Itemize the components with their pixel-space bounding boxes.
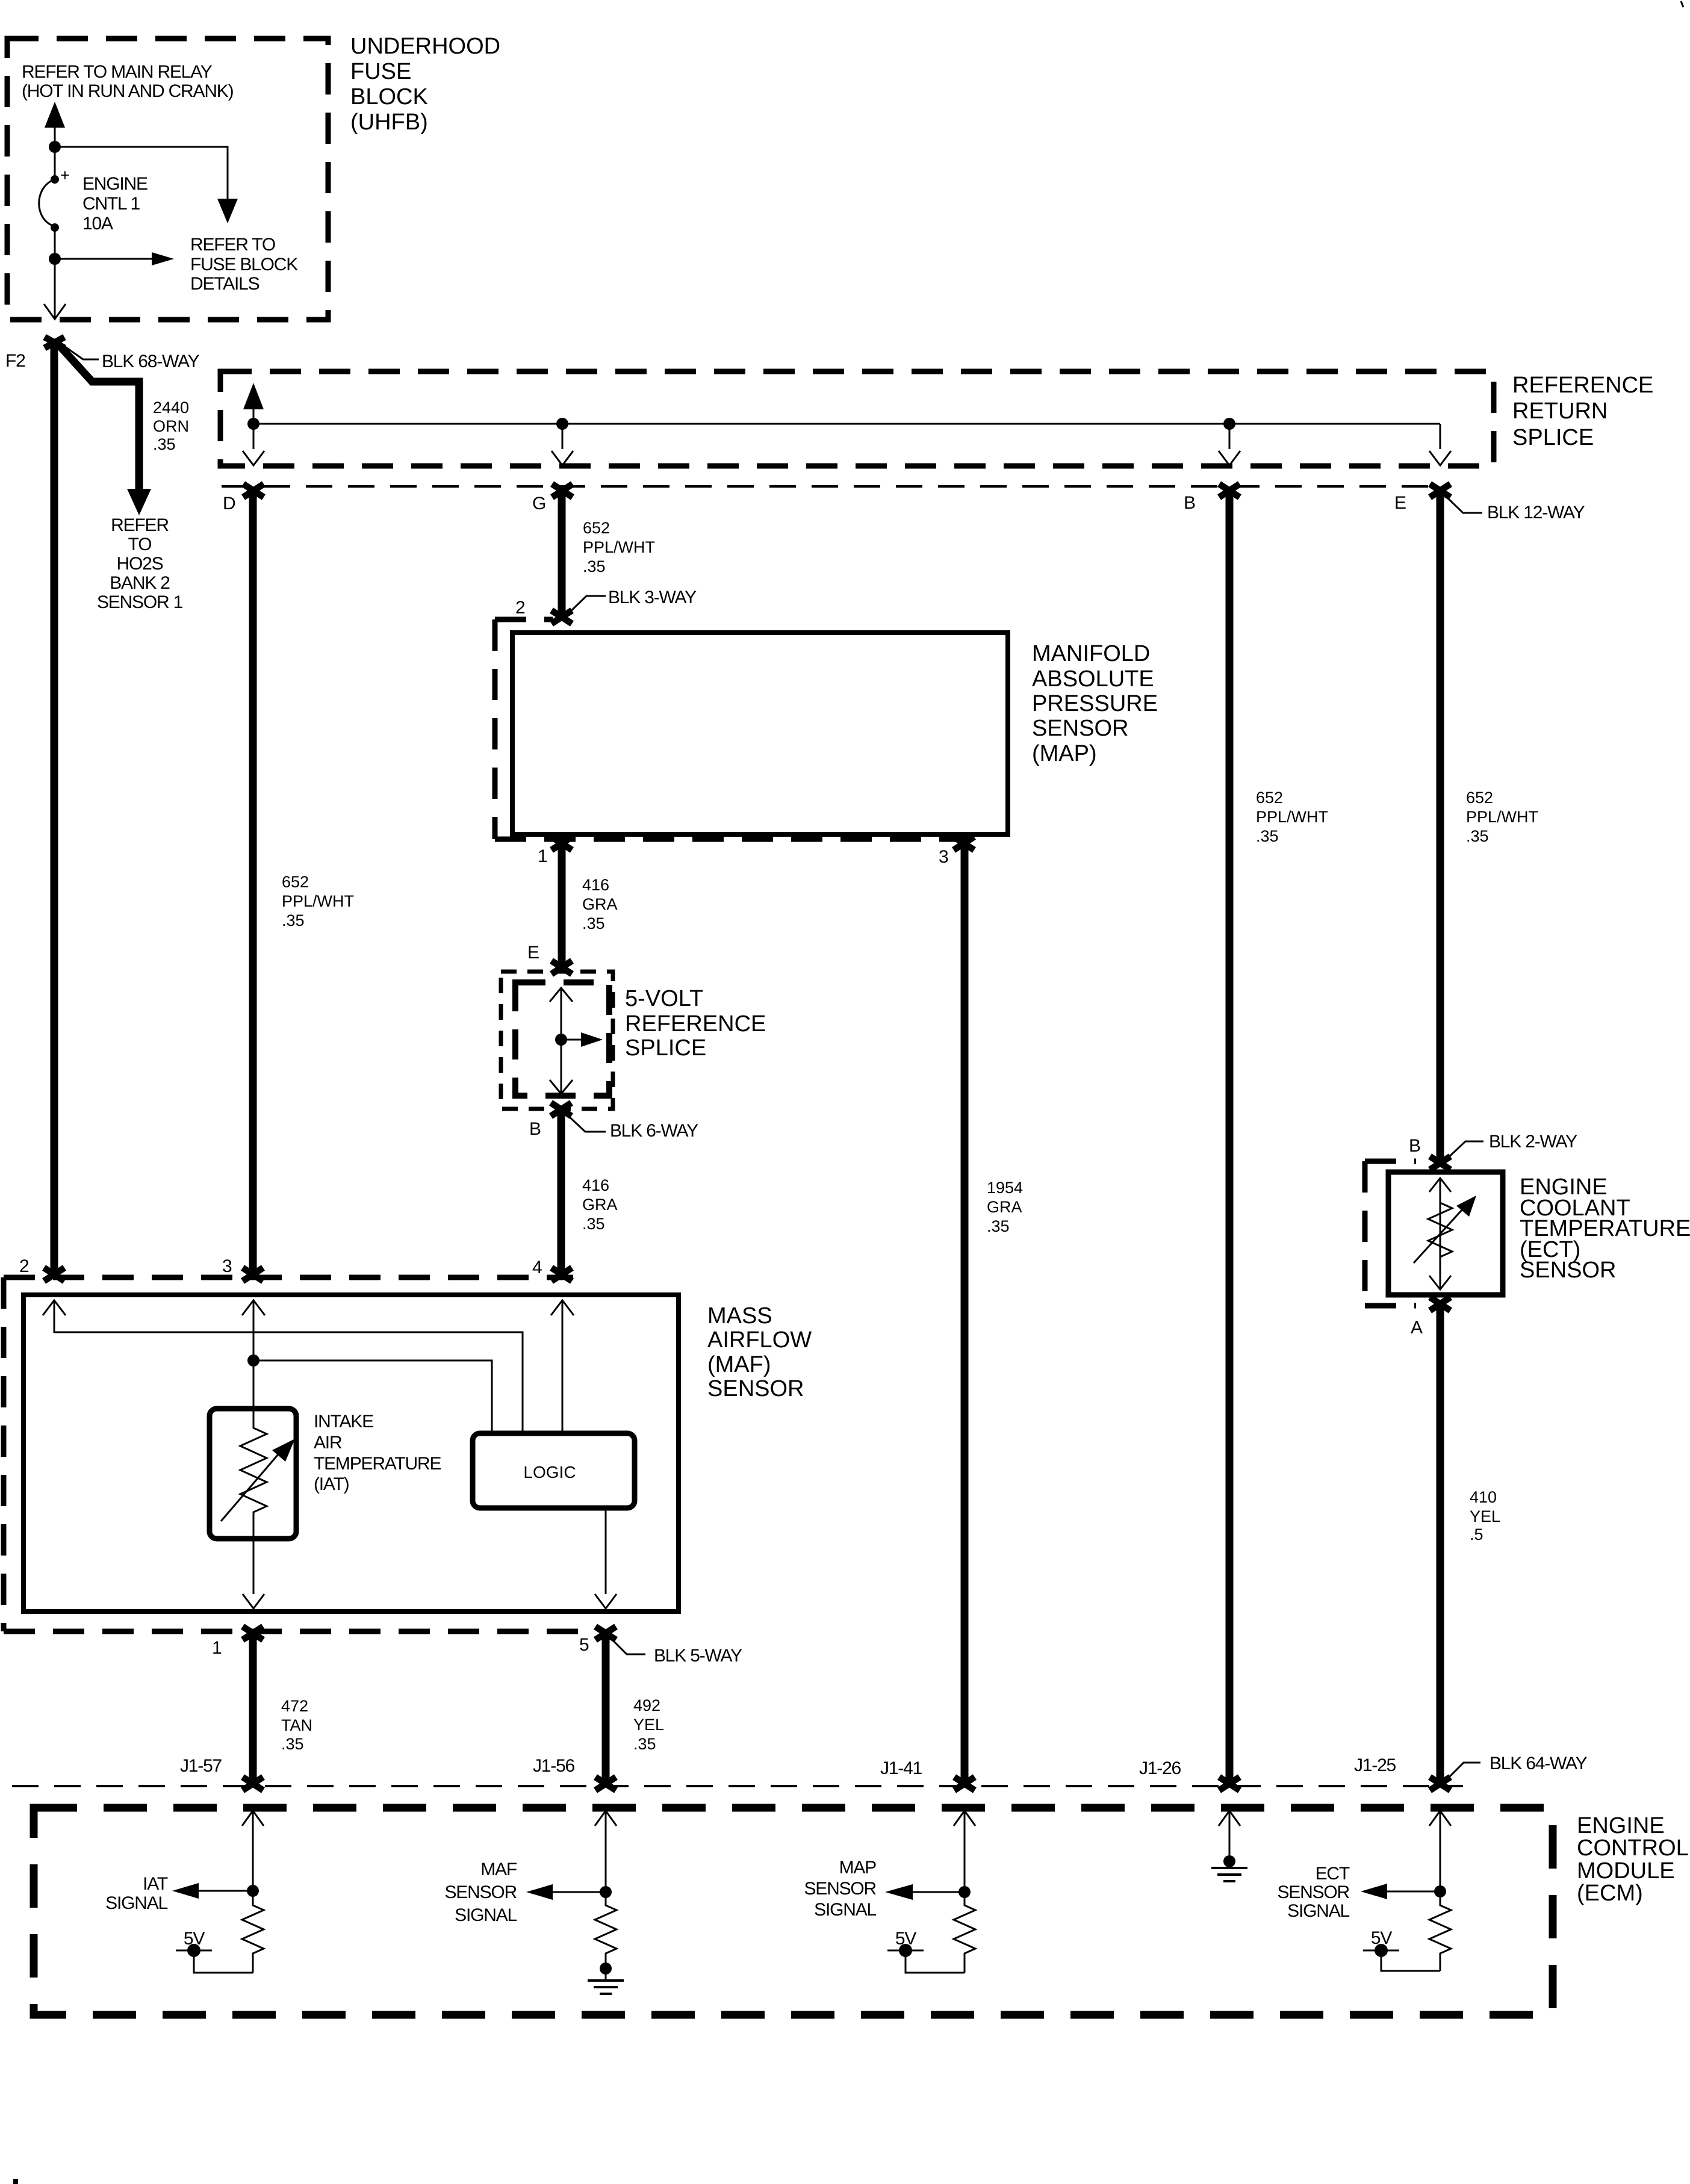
- svg-text:(MAP): (MAP): [1032, 741, 1097, 766]
- label MAF SENSOR SIGNAL: [445, 1860, 517, 1925]
- connector mark J1-41: [954, 1777, 975, 1790]
- wire 1954 GRA MAP pin 3 to ECM J1-41: [961, 844, 969, 1783]
- splice node with arrows: [550, 988, 603, 1094]
- svg-text:1: 1: [538, 846, 547, 866]
- svg-text:MAF: MAF: [480, 1860, 517, 1879]
- wire down to F2 with open arrow: [44, 259, 66, 319]
- svg-text:5: 5: [579, 1635, 589, 1655]
- svg-text:2440: 2440: [153, 399, 189, 417]
- connector mark MAF pin 4: [551, 1268, 572, 1281]
- connector mark MAF pin 3: [243, 1268, 263, 1281]
- svg-text:416: 416: [582, 876, 609, 894]
- page corner mark top right: [1681, 1, 1683, 7]
- MAF SENSOR SIGNAL arrow: [526, 1884, 606, 1900]
- connector mark J1-25: [1430, 1777, 1450, 1790]
- svg-text:LOGIC: LOGIC: [523, 1463, 576, 1481]
- label 492 YEL .35: [633, 1696, 664, 1753]
- svg-text:3: 3: [222, 1256, 232, 1276]
- splice feed arrow up: [243, 383, 264, 465]
- svg-text:4: 4: [532, 1258, 542, 1277]
- connector mark at E: [1430, 484, 1450, 497]
- svg-text:BLK 68-WAY: BLK 68-WAY: [102, 352, 200, 371]
- wire LOGIC to MAF pin 5: [595, 1508, 617, 1609]
- svg-text:(ECM): (ECM): [1577, 1881, 1643, 1906]
- svg-text:5V: 5V: [1371, 1928, 1392, 1948]
- label MANIFOLD ABSOLUTE PRESSURE SENSOR (MAP): [1032, 641, 1158, 766]
- svg-text:TAN: TAN: [281, 1716, 312, 1734]
- svg-text:SIGNAL: SIGNAL: [1287, 1901, 1349, 1921]
- svg-text:1954: 1954: [987, 1179, 1023, 1197]
- ECM pull-up resistor (ECT): [1429, 1891, 1451, 1971]
- svg-text:.35: .35: [282, 911, 305, 929]
- svg-text:REFER TO MAIN RELAY: REFER TO MAIN RELAY: [22, 62, 213, 82]
- svg-text:BLK 5-WAY: BLK 5-WAY: [654, 1646, 742, 1666]
- svg-text:GRA: GRA: [582, 895, 618, 913]
- svg-text:AIRFLOW: AIRFLOW: [707, 1327, 812, 1353]
- svg-text:.35: .35: [1466, 827, 1489, 845]
- svg-text:J1-25: J1-25: [1354, 1755, 1396, 1775]
- IAT thermistor box: [210, 1409, 296, 1539]
- page corner mark bottom left: [13, 2179, 18, 2184]
- svg-text:CONTROL: CONTROL: [1577, 1835, 1689, 1861]
- ECM dashed box: [34, 1808, 1553, 2015]
- connector mark X at F2 BLK 68-WAY: [45, 337, 64, 348]
- connector mark ECT pin A: [1430, 1297, 1450, 1311]
- junction node: [247, 418, 259, 430]
- connector line BLK 12-WAY: [222, 485, 1449, 488]
- arrow wire to fuse block details: [55, 228, 174, 265]
- wire branch to fuse block details: [55, 147, 228, 202]
- ECM ECT signal input wire: [1429, 1811, 1451, 1891]
- svg-text:E: E: [527, 943, 539, 963]
- svg-text:PPL/WHT: PPL/WHT: [1256, 808, 1328, 826]
- svg-text:GRA: GRA: [582, 1196, 618, 1214]
- svg-text:BLK 2-WAY: BLK 2-WAY: [1489, 1132, 1577, 1152]
- junction node: [555, 1034, 567, 1046]
- svg-text:SPLICE: SPLICE: [625, 1035, 706, 1061]
- connector mark splice top: [551, 961, 572, 974]
- svg-text:.35: .35: [633, 1735, 656, 1753]
- svg-text:5-VOLT: 5-VOLT: [625, 986, 703, 1011]
- 5V reference terminal (MAP): [887, 1929, 965, 1973]
- label ECT SENSOR SIGNAL: [1278, 1864, 1350, 1921]
- svg-text:J1-41: J1-41: [880, 1758, 922, 1778]
- MAP sensor solid box: [512, 633, 1008, 834]
- svg-text:HO2S: HO2S: [117, 554, 163, 574]
- connector mark ECT pin B: [1430, 1156, 1450, 1170]
- connector mark MAP pin 3: [954, 837, 974, 850]
- svg-text:B: B: [1409, 1136, 1420, 1156]
- wire 410 YEL ECT pin A to ECM J1-25: [1437, 1308, 1444, 1783]
- svg-text:PPL/WHT: PPL/WHT: [1466, 808, 1538, 826]
- svg-text:.35: .35: [1256, 827, 1279, 845]
- wire junction to logic: [253, 1360, 492, 1432]
- label 2440 ORN .35: [153, 399, 189, 453]
- svg-text:BLK 3-WAY: BLK 3-WAY: [608, 588, 697, 607]
- label UNDERHOOD FUSE BLOCK (UHFB): [350, 34, 500, 135]
- svg-text:492: 492: [633, 1696, 660, 1714]
- svg-text:B: B: [1184, 493, 1195, 513]
- svg-text:AIR: AIR: [314, 1433, 342, 1453]
- junction node: [1223, 1855, 1235, 1867]
- svg-text:SIGNAL: SIGNAL: [455, 1905, 517, 1925]
- svg-text:B: B: [529, 1119, 541, 1139]
- svg-text:RETURN: RETURN: [1512, 399, 1608, 424]
- junction node: [958, 1886, 971, 1898]
- wire 492 YEL MAF pin 5 to ECM J1-56: [602, 1636, 610, 1783]
- svg-text:SENSOR: SENSOR: [1032, 716, 1128, 741]
- svg-text:.35: .35: [582, 914, 605, 932]
- connector mark J1-26: [1219, 1777, 1240, 1790]
- svg-text:SIGNAL: SIGNAL: [105, 1893, 167, 1913]
- note REFER TO MAIN RELAY (HOT IN RUN AND CRANK): [22, 62, 234, 101]
- svg-text:2: 2: [19, 1256, 29, 1276]
- ground (MAF): [588, 1968, 624, 1994]
- label ENGINE CONTROL MODULE (ECM): [1577, 1813, 1689, 1906]
- connector mark splice bottom BLK 6-WAY: [551, 1103, 571, 1116]
- junction node: [247, 1885, 259, 1897]
- ECT sensor dashed connector box: [1365, 1161, 1416, 1306]
- LOGIC box: [473, 1433, 635, 1508]
- 5V reference terminal (ECT): [1363, 1928, 1440, 1971]
- label 416 GRA .35 (lower): [582, 1176, 618, 1233]
- ECM ground leg J1-26: [1219, 1811, 1240, 1861]
- label 652 PPL/WHT .35 (E wire): [1466, 789, 1538, 845]
- svg-text:SENSOR: SENSOR: [445, 1882, 517, 1902]
- label 652 PPL/WHT .35 (G wire): [583, 519, 655, 575]
- svg-text:+: +: [60, 166, 70, 184]
- connector mark J1-56: [595, 1777, 616, 1790]
- svg-text:1: 1: [212, 1638, 222, 1658]
- svg-text:652: 652: [282, 873, 309, 891]
- svg-text:INTAKE: INTAKE: [314, 1412, 373, 1432]
- callout BLK 5-WAY: [610, 1637, 742, 1666]
- svg-text:(MAF): (MAF): [707, 1352, 771, 1377]
- MAF sensor dashed connector box: [4, 1277, 596, 1631]
- ECT thermistor element: [1414, 1178, 1476, 1289]
- svg-text:REFERENCE: REFERENCE: [1512, 373, 1653, 398]
- svg-text:E: E: [1394, 493, 1406, 513]
- label MASS AIRFLOW (MAF) SENSOR: [707, 1303, 812, 1401]
- svg-text:5V: 5V: [895, 1929, 916, 1949]
- svg-text:BLK 12-WAY: BLK 12-WAY: [1487, 503, 1585, 523]
- wire 2440 ORN left run to MAF pin 2: [51, 346, 58, 1273]
- svg-text:ORN: ORN: [153, 417, 189, 435]
- svg-text:GRA: GRA: [987, 1198, 1022, 1216]
- svg-text:SIGNAL: SIGNAL: [814, 1900, 876, 1920]
- svg-text:ABSOLUTE: ABSOLUTE: [1032, 666, 1154, 692]
- splice drop arrow at E: [1429, 424, 1451, 465]
- ECT SENSOR SIGNAL arrow: [1361, 1884, 1440, 1899]
- svg-text:FUSE BLOCK: FUSE BLOCK: [190, 255, 298, 275]
- label 5-VOLT REFERENCE SPLICE: [625, 986, 766, 1061]
- callout BLK 12-WAY: [1444, 495, 1585, 523]
- svg-text:MASS: MASS: [707, 1303, 772, 1329]
- svg-text:5V: 5V: [184, 1929, 205, 1949]
- svg-text:G: G: [532, 494, 545, 513]
- junction node: [556, 418, 568, 430]
- svg-text:MANIFOLD: MANIFOLD: [1032, 641, 1150, 666]
- svg-text:3: 3: [939, 847, 948, 867]
- reference return splice dashed box: [220, 371, 1494, 466]
- ECT sensor solid box: [1388, 1172, 1503, 1295]
- svg-text:UNDERHOOD: UNDERHOOD: [350, 34, 500, 59]
- splice drop arrow at B: [1219, 424, 1240, 465]
- connector mark MAF pin 2: [44, 1268, 64, 1281]
- label 416 GRA .35 (upper): [582, 876, 618, 932]
- fuse ENGINE CNTL 1 10A: [39, 147, 148, 234]
- svg-text:410: 410: [1470, 1488, 1497, 1506]
- down arrow to fuse block details note: [217, 199, 238, 223]
- label INTAKE AIR TEMPERATURE (IAT): [314, 1412, 441, 1494]
- svg-text:J1-56: J1-56: [533, 1756, 575, 1776]
- svg-text:SENSOR: SENSOR: [1278, 1882, 1350, 1902]
- svg-text:REFER TO: REFER TO: [190, 235, 275, 255]
- svg-text:BLK 6-WAY: BLK 6-WAY: [610, 1121, 698, 1141]
- svg-text:.35: .35: [281, 1735, 304, 1753]
- MAF internal wire from pin 3: [242, 1300, 265, 1412]
- connector mark J1-57: [243, 1777, 263, 1790]
- label 1954 GRA .35: [987, 1179, 1023, 1235]
- label ENGINE COOLANT TEMPERATURE (ECT) SENSOR: [1520, 1174, 1690, 1283]
- svg-text:MODULE: MODULE: [1577, 1858, 1675, 1884]
- svg-text:F2: F2: [5, 351, 25, 371]
- label MAP SENSOR SIGNAL: [804, 1858, 877, 1920]
- connector mark MAF pin 1: [243, 1627, 263, 1640]
- label REFERENCE RETURN SPLICE: [1512, 373, 1653, 450]
- junction node: [49, 253, 61, 265]
- svg-text:IAT: IAT: [143, 1874, 168, 1894]
- svg-text:(HOT IN RUN AND CRANK): (HOT IN RUN AND CRANK): [22, 81, 234, 101]
- svg-text:J1-26: J1-26: [1139, 1758, 1181, 1778]
- svg-text:REFERENCE: REFERENCE: [625, 1011, 766, 1037]
- svg-text:DETAILS: DETAILS: [190, 274, 259, 294]
- wire 416 GRA splice B to MAF pin 4: [558, 1112, 565, 1273]
- label 410 YEL .5: [1470, 1488, 1500, 1543]
- splice bus wire: [253, 423, 1440, 425]
- svg-text:.5: .5: [1470, 1525, 1483, 1543]
- wire IAT to MAF pin 1: [243, 1539, 264, 1609]
- junction node: [247, 1354, 259, 1367]
- svg-text:BANK 2: BANK 2: [110, 573, 170, 593]
- svg-text:.35: .35: [987, 1217, 1010, 1235]
- svg-text:YEL: YEL: [633, 1716, 664, 1734]
- svg-text:.35: .35: [583, 557, 606, 575]
- svg-text:SENSOR: SENSOR: [1520, 1258, 1616, 1283]
- splice drop arrow at G: [551, 424, 573, 465]
- wire 472 TAN MAF pin 1 to ECM J1-57: [249, 1636, 257, 1783]
- ECM pull-up resistor (IAT): [242, 1891, 264, 1973]
- svg-text:(UHFB): (UHFB): [350, 110, 428, 135]
- IAT SIGNAL arrow: [172, 1883, 253, 1899]
- wire 416 GRA MAP pin 1 to splice E: [558, 844, 566, 968]
- note REFER TO HO2S BANK 2 SENSOR 1: [97, 515, 183, 612]
- svg-text:A: A: [1411, 1318, 1423, 1338]
- MAP sensor dashed connector box: [495, 619, 976, 839]
- svg-text:FUSE: FUSE: [350, 59, 411, 84]
- svg-text:D: D: [223, 494, 235, 513]
- svg-text:(IAT): (IAT): [314, 1474, 349, 1494]
- svg-text:MAP: MAP: [839, 1858, 877, 1878]
- junction node: [49, 141, 61, 153]
- svg-text:TO: TO: [128, 535, 152, 554]
- connector line BLK 64-WAY: [12, 1785, 1463, 1787]
- label IAT SIGNAL: [105, 1874, 168, 1913]
- ECM pull-down resistor (MAF): [595, 1892, 617, 1965]
- note REFER TO FUSE BLOCK DETAILS: [190, 235, 298, 294]
- callout BLK 3-WAY: [567, 588, 697, 615]
- svg-text:2: 2: [515, 598, 525, 618]
- underhood fuse block (UHFB) dashed box: [7, 39, 328, 320]
- callout BLK 6-WAY: [566, 1114, 698, 1141]
- svg-text:652: 652: [1256, 789, 1283, 807]
- connector mark MAF pin 5: [595, 1627, 616, 1640]
- svg-text:PPL/WHT: PPL/WHT: [282, 892, 354, 910]
- svg-text:.35: .35: [153, 435, 176, 453]
- MAF internal wire from pin 2 to logic: [43, 1300, 523, 1432]
- svg-text:TEMPERATURE: TEMPERATURE: [314, 1454, 441, 1474]
- wire 652 PPL/WHT splice E to ECT pin B: [1437, 492, 1444, 1159]
- callout BLK 2-WAY: [1445, 1132, 1577, 1161]
- MAF internal wire from pin 4 to logic: [551, 1300, 574, 1432]
- connector mark MAP pin 1: [551, 837, 572, 850]
- svg-text:10A: 10A: [82, 214, 113, 234]
- label 652 PPL/WHT .35 (B wire): [1256, 789, 1328, 845]
- junction node: [1434, 1885, 1446, 1897]
- connector mark at D: [243, 484, 264, 497]
- svg-text:416: 416: [582, 1176, 609, 1194]
- label 472 TAN .35: [281, 1697, 312, 1753]
- svg-text:472: 472: [281, 1697, 308, 1715]
- junction node: [600, 1886, 612, 1898]
- connector mark MAP pin 2: [551, 610, 572, 624]
- ECM IAT signal input wire: [242, 1811, 264, 1891]
- wire 652 PPL/WHT pin D to MAF pin 3: [249, 492, 257, 1273]
- svg-text:PPL/WHT: PPL/WHT: [583, 538, 655, 556]
- svg-text:ECT: ECT: [1316, 1864, 1350, 1884]
- svg-text:REFER: REFER: [111, 515, 169, 535]
- svg-text:SPLICE: SPLICE: [1512, 425, 1594, 450]
- junction node: [1223, 418, 1235, 430]
- wire 652 PPL/WHT splice B to ECM J1-26: [1226, 492, 1234, 1783]
- junction node: [600, 1962, 612, 1975]
- callout BLK 68-WAY: [63, 345, 200, 371]
- label 652 PPL/WHT .35 (D wire): [282, 873, 354, 929]
- svg-text:PRESSURE: PRESSURE: [1032, 691, 1158, 716]
- MAF sensor solid box: [23, 1295, 679, 1612]
- connector mark at B: [1219, 484, 1240, 497]
- 5-volt reference splice inner dashed box: [515, 982, 609, 1096]
- svg-text:J1-57: J1-57: [180, 1756, 222, 1776]
- svg-text:CNTL 1: CNTL 1: [82, 194, 140, 214]
- svg-text:SENSOR 1: SENSOR 1: [97, 592, 183, 612]
- svg-text:BLOCK: BLOCK: [350, 84, 428, 110]
- svg-text:SENSOR: SENSOR: [707, 1376, 804, 1401]
- wire to main relay with up arrow: [45, 102, 65, 147]
- wire 652 PPL/WHT pin G to MAP pin 2: [558, 492, 566, 615]
- ECM pull-up resistor (MAP): [954, 1892, 975, 1973]
- connector mark at G: [552, 484, 573, 497]
- svg-text:.35: .35: [582, 1215, 605, 1233]
- IAT thermistor element: [221, 1412, 295, 1537]
- ECM MAP signal input wire: [954, 1811, 975, 1892]
- svg-text:SENSOR: SENSOR: [804, 1879, 877, 1899]
- svg-text:YEL: YEL: [1470, 1507, 1500, 1525]
- svg-text:ENGINE: ENGINE: [82, 174, 148, 194]
- svg-text:BLK 64-WAY: BLK 64-WAY: [1490, 1754, 1588, 1773]
- 5-volt splice outer connector dashed box: [501, 972, 613, 1109]
- 5V reference terminal (IAT): [176, 1929, 253, 1973]
- svg-text:ENGINE: ENGINE: [1577, 1813, 1665, 1838]
- svg-text:652: 652: [1466, 789, 1493, 807]
- callout BLK 64-WAY: [1446, 1754, 1588, 1781]
- svg-text:652: 652: [583, 519, 610, 537]
- ground (J1-26): [1211, 1861, 1247, 1881]
- MAP SENSOR SIGNAL arrow: [885, 1884, 965, 1900]
- wire 2440 ORN branch to HO2S: [57, 343, 151, 515]
- ECM MAF signal input wire: [595, 1811, 617, 1892]
